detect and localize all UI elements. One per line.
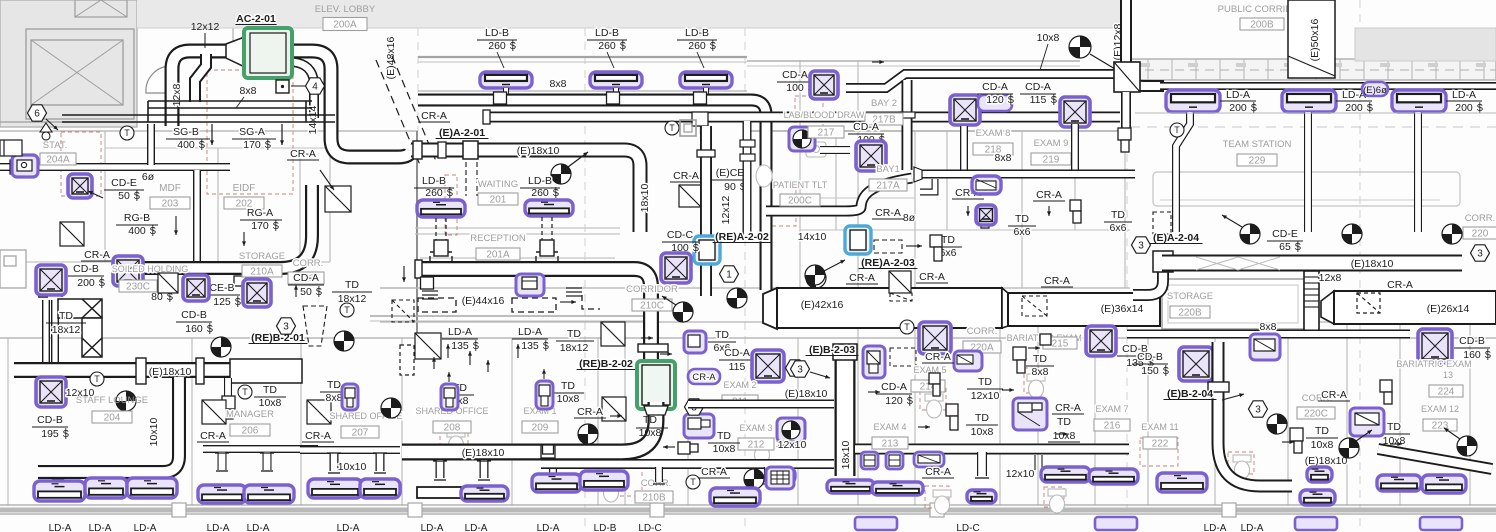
svg-text:8x8: 8x8 xyxy=(1260,321,1277,333)
duct E26x14 big xyxy=(1321,291,1496,324)
hanger 12x10 xyxy=(1035,455,1042,470)
purple slot above duct e4 xyxy=(914,452,944,467)
room TEAM STATION xyxy=(1223,139,1292,150)
room BARIATRIC EXAM 13 xyxy=(1396,359,1471,369)
black slot 208 xyxy=(417,487,461,498)
svg-text:195: 195 xyxy=(41,428,59,440)
svg-text:12x10: 12x10 xyxy=(971,390,1000,402)
room 210A box xyxy=(242,265,282,278)
arrow E44 right xyxy=(560,300,576,304)
room 210B box xyxy=(635,491,673,504)
label 10x8 top xyxy=(1037,32,1060,44)
td elbows b204 xyxy=(1290,380,1392,453)
damper CR-A box topleft xyxy=(325,186,351,212)
wall vert x1148 xyxy=(1147,338,1149,505)
toilet fixture 3 xyxy=(933,490,951,514)
room CORR 220A xyxy=(967,326,998,337)
tap staff 2 xyxy=(103,479,114,487)
svg-text:T: T xyxy=(94,374,100,384)
label TD 10x8 exam3 xyxy=(713,430,736,455)
diffuser CD-B 195 xyxy=(36,377,66,407)
label RG-B 400 xyxy=(124,212,157,237)
demo dashed outline 10 xyxy=(795,96,823,134)
svg-text:STORAGE: STORAGE xyxy=(239,251,285,262)
svg-text:TD: TD xyxy=(1315,425,1329,437)
room 207 box xyxy=(341,426,379,439)
wall corr right top xyxy=(1130,321,1496,323)
toilet fixture 6 xyxy=(602,478,620,502)
svg-text:LD-A: LD-A xyxy=(337,523,360,532)
svg-text:18x12: 18x12 xyxy=(52,324,81,336)
svg-text:BAY 2: BAY 2 xyxy=(871,98,897,109)
transition b202 neck xyxy=(644,406,668,415)
bottom corridor band xyxy=(0,508,1496,513)
flange 18x10 drop xyxy=(697,150,715,157)
svg-text:(E)6ø: (E)6ø xyxy=(1363,85,1387,96)
svg-text:170: 170 xyxy=(243,139,261,151)
label TD 6x6 patient xyxy=(940,234,957,259)
counter inner xyxy=(1160,199,1440,201)
leader hex4 xyxy=(291,85,305,87)
svg-text:120: 120 xyxy=(885,395,903,407)
reception desk xyxy=(415,228,620,258)
svg-text:TD: TD xyxy=(1033,353,1047,365)
section marker top right xyxy=(1069,36,1091,58)
label TD 8x8 208 xyxy=(452,382,469,407)
purple bottom tag 2 xyxy=(1095,517,1137,530)
svg-text:T: T xyxy=(690,477,696,487)
svg-text:260: 260 xyxy=(598,40,616,52)
label CE-B 125 xyxy=(209,282,241,308)
underline RG-B xyxy=(116,224,158,226)
tap main 1 xyxy=(494,92,507,104)
svg-text:LD-A: LD-A xyxy=(1204,523,1227,532)
svg-text:18x12: 18x12 xyxy=(338,293,367,305)
svg-text:TD: TD xyxy=(1057,416,1071,428)
wall vert up x1125 xyxy=(1124,131,1126,288)
svg-text:CR-A: CR-A xyxy=(701,466,727,478)
room EXAM 11 xyxy=(1141,422,1178,432)
svg-text:LD-A: LD-A xyxy=(465,523,488,532)
damper mid dash xyxy=(400,345,414,375)
demo dashed outline 7 xyxy=(618,468,642,496)
section marker staff xyxy=(116,391,136,411)
td box mgr xyxy=(222,396,235,409)
room CORR 210 xyxy=(293,258,324,269)
svg-text:10x10: 10x10 xyxy=(338,461,367,473)
room EXAM 1 xyxy=(523,406,556,416)
underline TD patient xyxy=(934,246,962,248)
arrow SG-B drop xyxy=(210,124,214,145)
svg-text:204: 204 xyxy=(104,413,121,424)
stat sensor xyxy=(40,123,52,140)
svg-text:200C: 200C xyxy=(788,196,812,207)
svg-text:215: 215 xyxy=(1052,339,1069,350)
tap on duct 208 xyxy=(541,445,555,458)
hex tag 6 xyxy=(28,105,47,121)
svg-text:T: T xyxy=(242,387,248,397)
svg-text:BAY1: BAY1 xyxy=(876,164,900,175)
arrow lda a xyxy=(446,344,450,358)
wall gray block top right xyxy=(1355,28,1496,61)
svg-text:T: T xyxy=(344,305,350,315)
stem LD-A 3 xyxy=(1414,112,1422,232)
underline CR-A e9 xyxy=(1033,200,1065,202)
svg-text:CD-A: CD-A xyxy=(782,69,808,81)
thermostat staff xyxy=(90,372,104,386)
svg-text:EXAM 8: EXAM 8 xyxy=(976,128,1011,139)
demo dashed outline 5 xyxy=(1044,487,1064,507)
linear slot diffuser bottom 14 xyxy=(872,482,923,495)
svg-text:170: 170 xyxy=(251,220,269,232)
svg-text:10x8: 10x8 xyxy=(971,426,994,438)
label EA-2-01 xyxy=(436,127,489,139)
label TD 6x6 e9 xyxy=(1110,209,1127,234)
elbow assembly TD18x12 xyxy=(58,299,102,357)
svg-text:TD: TD xyxy=(643,414,657,426)
svg-text:LD-A: LD-A xyxy=(89,523,112,532)
underline TD e9 xyxy=(1104,221,1132,223)
duct exam3 long run xyxy=(541,459,834,469)
svg-text:201: 201 xyxy=(490,195,507,206)
svg-text:LD-A: LD-A xyxy=(518,326,542,338)
label 6o xyxy=(142,171,155,183)
svg-text:200B: 200B xyxy=(1250,20,1274,31)
underline CD-A e4 xyxy=(876,393,912,395)
duct b203 top xyxy=(833,344,857,360)
underline TD 207 xyxy=(320,391,348,393)
label E42x16 xyxy=(801,299,844,311)
svg-text:(E)CE: (E)CE xyxy=(716,167,745,179)
duct manager run xyxy=(203,445,318,453)
svg-text:LD-A: LD-A xyxy=(537,523,560,532)
duct drop 18x10 vert xyxy=(700,126,712,296)
underline CR-A exam12 xyxy=(1318,400,1350,402)
wall vert up x800 xyxy=(799,60,801,288)
damper box left mid xyxy=(60,222,84,246)
wall vert x625 xyxy=(624,338,626,505)
room 213 box xyxy=(872,437,908,450)
duct right thin main xyxy=(1127,330,1410,339)
label 8x8 right xyxy=(1260,321,1277,333)
duct b204 caps xyxy=(1208,382,1229,392)
td purple 207 xyxy=(342,384,358,410)
duct left corridor run xyxy=(0,163,230,171)
svg-text:10x8: 10x8 xyxy=(639,427,662,439)
wall vert x301 xyxy=(300,338,302,505)
svg-text:CR-A: CR-A xyxy=(305,430,331,442)
room 204A box xyxy=(40,153,76,166)
underline LD-A a xyxy=(442,338,478,340)
cap reception duct xyxy=(415,260,422,278)
room 212 box xyxy=(738,438,774,451)
td elbow e8 xyxy=(978,205,989,228)
svg-text:PATIENT TLT: PATIENT TLT xyxy=(773,180,828,190)
linear slot diffuser bottom 11 xyxy=(710,488,760,506)
flow arrow 2 xyxy=(1002,388,1014,392)
underline CD-A e8 xyxy=(977,93,1013,95)
duct staff lounge xyxy=(38,377,179,472)
label 12x8 rot xyxy=(171,83,183,106)
svg-text:LD-A: LD-A xyxy=(247,523,270,532)
demo dashed outline 8 xyxy=(1140,438,1178,466)
tap 208 a xyxy=(436,460,445,478)
svg-text:18x12: 18x12 xyxy=(560,342,589,354)
svg-text:(E)18x10: (E)18x10 xyxy=(462,447,505,459)
svg-text:3: 3 xyxy=(1477,249,1483,260)
wall under band xyxy=(1130,84,1496,86)
damper reception end xyxy=(601,322,625,346)
label E48x16 rot xyxy=(385,37,397,80)
section marker team 3 xyxy=(1442,224,1462,244)
underline CD-B 195 xyxy=(32,426,68,428)
stem LD-B top 2 xyxy=(613,88,619,98)
svg-text:LAB/BLOOD DRAW: LAB/BLOOD DRAW xyxy=(784,110,865,120)
tap staff 3 xyxy=(147,479,158,487)
room CORR 220C xyxy=(1302,393,1333,404)
linear slot diffuser bottom 5 xyxy=(244,485,294,503)
toilet fixture 2 xyxy=(1027,374,1045,398)
wall corridor y91 xyxy=(418,90,747,92)
wall bottom corr 1 xyxy=(0,504,1496,506)
underline TD6 corrB xyxy=(708,341,736,343)
hex tag 4 xyxy=(306,78,325,94)
duct exam4 main xyxy=(855,444,1129,455)
label E18x10 b201 xyxy=(149,366,192,378)
svg-text:CR-A: CR-A xyxy=(1036,189,1062,201)
svg-text:(E)18x10: (E)18x10 xyxy=(1305,455,1348,467)
damper box corr center xyxy=(679,185,701,207)
diffuser small e8 xyxy=(976,205,996,225)
svg-text:CD-A: CD-A xyxy=(881,381,907,393)
label TD 10x8 b204a xyxy=(1311,425,1334,451)
label E12x8 rot xyxy=(1112,23,1124,60)
leader 12x12 xyxy=(204,33,206,48)
underline LD-A r3 xyxy=(1446,100,1482,102)
vav b202 inner xyxy=(642,365,670,405)
wall y148 left rooms xyxy=(105,147,330,149)
wall corridor y61b xyxy=(747,60,1080,62)
svg-text:TD: TD xyxy=(717,430,731,442)
room 218 box xyxy=(973,143,1013,156)
svg-text:8x8: 8x8 xyxy=(326,392,343,404)
label TD 10x8 209 xyxy=(557,380,580,405)
arrow CD-E leader xyxy=(88,191,103,198)
svg-text:CD-C: CD-C xyxy=(667,229,694,241)
svg-text:T: T xyxy=(669,123,675,133)
svg-text:LD-B: LD-B xyxy=(685,27,709,39)
svg-text:TD: TD xyxy=(1015,213,1029,225)
room EXAM 3 xyxy=(739,423,772,433)
underline LD-A r1 xyxy=(1220,100,1256,102)
linear diffuser LD-B top 2 xyxy=(590,72,642,88)
room 204 box xyxy=(92,411,132,424)
underline CR-A waiting xyxy=(418,121,450,123)
section marker lab xyxy=(793,130,811,148)
underline SG-A xyxy=(232,138,276,140)
tap 207 b xyxy=(376,453,385,471)
svg-text:LD-B: LD-B xyxy=(595,27,619,39)
svg-text:CD-E: CD-E xyxy=(1272,228,1298,240)
leader LD-B top 2 xyxy=(607,52,614,68)
duct flange b201b xyxy=(196,358,204,384)
underline LD-B top 1 xyxy=(477,39,517,41)
arrow b203 xyxy=(810,372,830,379)
stem LD-A 1 xyxy=(1176,112,1190,232)
label CD-B 200 xyxy=(73,263,105,289)
hex b204 xyxy=(1249,401,1268,417)
stem exam9 xyxy=(1071,124,1079,170)
label TD 18x12 corr210 xyxy=(338,279,367,305)
arrow 208 up xyxy=(447,372,451,382)
svg-text:CR-A: CR-A xyxy=(421,110,447,122)
wall corr bottom gray b xyxy=(370,320,648,322)
svg-text:4: 4 xyxy=(312,82,318,93)
label TD 6x6 e8 xyxy=(1014,213,1031,238)
svg-text:LD-B: LD-B xyxy=(594,523,617,532)
diffuser CD-A bay2 xyxy=(810,71,838,99)
wall vert up x300 xyxy=(299,148,301,262)
svg-text:CORR.: CORR. xyxy=(967,326,998,337)
duct E corridor lower xyxy=(487,112,1120,123)
svg-text:AC-2-01: AC-2-01 xyxy=(236,13,276,25)
hex b201 xyxy=(277,318,296,334)
wall vert up x947 xyxy=(946,131,948,230)
svg-text:(E)42x16: (E)42x16 xyxy=(801,299,844,311)
hatch marks reception xyxy=(422,288,582,299)
wall vert x798 xyxy=(797,338,799,505)
svg-text:CORRIDOR: CORRIDOR xyxy=(626,284,678,295)
underline TD corr210 xyxy=(332,291,372,293)
room 210 box xyxy=(288,272,324,285)
underline CR-A mid xyxy=(670,181,702,183)
underline CD-C xyxy=(662,241,698,243)
svg-text:200: 200 xyxy=(1345,102,1363,114)
bottom corridor squares xyxy=(172,503,1236,517)
duct corridor east xyxy=(1160,82,1496,90)
room 229 box xyxy=(1237,154,1277,167)
arrow 209 up xyxy=(542,369,546,379)
label CR-A b203t xyxy=(849,272,875,284)
wall vert x1038 xyxy=(1037,322,1039,505)
label CR-A corr2 xyxy=(1044,275,1070,287)
svg-text:TD: TD xyxy=(975,412,989,424)
room 203 box xyxy=(150,197,190,210)
svg-text:RECEPTION: RECEPTION xyxy=(470,233,526,244)
linear slot diffuser bottom 22 xyxy=(1422,475,1466,493)
duct E12x8 riser xyxy=(1126,0,1164,86)
tap waiting w1 xyxy=(430,240,452,262)
dash box b203 xyxy=(890,348,916,366)
linear slot diffuser bottom 4 xyxy=(198,485,246,503)
arrow qc topright xyxy=(1090,54,1120,72)
svg-text:TD: TD xyxy=(345,279,359,291)
duct E42x16 big xyxy=(763,288,1002,329)
underline LD-A r2 xyxy=(1336,100,1372,102)
underline TD mid xyxy=(556,340,594,342)
room 220A box xyxy=(963,341,1001,354)
vav unit in blue 2 xyxy=(850,230,866,250)
label E18x10 waiting xyxy=(517,145,560,157)
svg-text:203: 203 xyxy=(162,199,179,210)
tap storage 2 xyxy=(234,276,246,286)
svg-text:EXAM 11: EXAM 11 xyxy=(1141,422,1178,432)
svg-text:MANAGER: MANAGER xyxy=(226,409,274,420)
linear diffuser LD-B waiting 2 xyxy=(525,200,573,216)
svg-text:CR-A: CR-A xyxy=(919,271,945,283)
svg-text:ELEV. LOBBY: ELEV. LOBBY xyxy=(315,4,376,15)
svg-text:CD-B: CD-B xyxy=(1137,351,1163,363)
room RECEPTION xyxy=(470,233,526,244)
dashed damper corr a xyxy=(890,293,912,301)
underline TD corrB xyxy=(636,427,668,429)
diffuser CD-B storage xyxy=(113,256,143,286)
section marker b204 xyxy=(1267,414,1287,434)
svg-text:217A: 217A xyxy=(876,181,900,192)
svg-text:260: 260 xyxy=(688,40,706,52)
svg-text:65: 65 xyxy=(1279,241,1291,253)
dashed duct E44x16 b xyxy=(512,298,556,312)
demo dashed outline 2 xyxy=(920,386,946,410)
stem exam8 xyxy=(960,126,968,170)
td elbows bar6 xyxy=(1013,334,1051,373)
room 211 box xyxy=(722,395,758,408)
section marker team 2 xyxy=(1342,224,1362,244)
svg-text:STAFF LOUNGE: STAFF LOUNGE xyxy=(76,395,148,406)
transition AC right xyxy=(269,36,290,68)
svg-text:14x10: 14x10 xyxy=(798,231,827,243)
duct 14x10 branch xyxy=(766,206,843,217)
svg-text:CD-B: CD-B xyxy=(181,309,207,321)
room 206 box xyxy=(230,424,270,437)
label 10x10 207 xyxy=(338,461,367,473)
room CORR 220 xyxy=(1465,213,1496,224)
svg-text:EXAM 9: EXAM 9 xyxy=(1034,138,1069,149)
label bottom LD-C 11 xyxy=(956,523,979,532)
svg-text:(RE)B-2-01: (RE)B-2-01 xyxy=(251,332,305,344)
flow arrow 0 xyxy=(610,414,622,418)
svg-text:222: 222 xyxy=(1152,439,1169,450)
duct flange b201a xyxy=(136,358,146,384)
svg-text:CD-B: CD-B xyxy=(73,263,99,275)
svg-text:216: 216 xyxy=(1104,421,1121,432)
flow arrow 15 xyxy=(872,60,884,64)
svg-text:T: T xyxy=(904,322,910,332)
linear slot diffuser bottom 15 xyxy=(967,490,996,503)
svg-text:SG-A: SG-A xyxy=(239,126,265,138)
dashed L E44 xyxy=(582,295,600,309)
svg-text:217: 217 xyxy=(818,128,835,139)
diffuser CD-A exam8 xyxy=(950,95,980,125)
label CD-A 115 e9 xyxy=(1025,81,1057,106)
dashed duct E44x16 a xyxy=(418,298,456,312)
tap staff 1 xyxy=(53,479,64,487)
svg-text:115: 115 xyxy=(1030,94,1047,106)
label 18x10 rot xyxy=(639,184,651,213)
svg-text:LD-A: LD-A xyxy=(1226,89,1250,101)
hex tag 1 blue xyxy=(720,266,739,282)
diffuser CD-C purple xyxy=(661,253,691,283)
duct exam drop left xyxy=(920,179,935,192)
svg-text:3: 3 xyxy=(1255,405,1261,416)
section marker soiled xyxy=(211,337,231,357)
damper soiled 2 xyxy=(158,273,178,293)
label bottom LD-A 8 xyxy=(537,523,560,532)
flow arrow 7 xyxy=(641,336,653,340)
hex right 3b xyxy=(1471,245,1490,261)
duct junction block xyxy=(1114,62,1140,92)
duct mgr connect xyxy=(224,378,232,396)
